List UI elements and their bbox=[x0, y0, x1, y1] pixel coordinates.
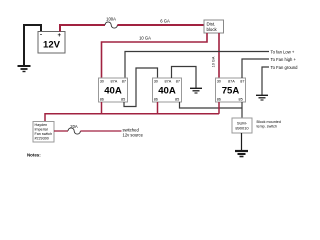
svg-text:87: 87 bbox=[176, 80, 180, 84]
svg-text:Notes:: Notes: bbox=[27, 153, 41, 158]
wire relay R1 pin 86 down to switched bus bbox=[101, 102, 103, 114]
svg-text:85: 85 bbox=[239, 98, 243, 102]
svg-text:87: 87 bbox=[122, 80, 126, 84]
svg-text:12V: 12V bbox=[43, 40, 61, 51]
svg-text:30: 30 bbox=[154, 80, 158, 84]
svg-text:Fan switch: Fan switch bbox=[35, 132, 53, 136]
svg-text:temp. switch: temp. switch bbox=[257, 124, 278, 128]
svg-text:To Fan high +: To Fan high + bbox=[271, 57, 297, 62]
svg-text:Block mounted: Block mounted bbox=[257, 120, 281, 124]
relay R1 40A bbox=[99, 78, 128, 102]
svg-text:Dist.: Dist. bbox=[207, 22, 216, 27]
temp switch SUM-890010 bbox=[232, 118, 252, 133]
wire relay R2 pin 85 to temp switch node bbox=[180, 102, 243, 108]
svg-text:To fan Low +: To fan Low + bbox=[271, 49, 295, 54]
wire temp switch to ground G4 bbox=[241, 133, 243, 151]
svg-text:Imperial: Imperial bbox=[35, 128, 48, 132]
wire relay R1 pin 85 to relay R2 pin 30 bbox=[124, 68, 158, 107]
svg-text:To Fan ground: To Fan ground bbox=[271, 65, 299, 70]
svg-text:10 GA: 10 GA bbox=[139, 36, 151, 41]
svg-text:Hayden: Hayden bbox=[35, 123, 48, 127]
wire relay R3 pin 85 down to temp switch bbox=[241, 102, 243, 118]
wire 10 GA from dist block down to relay R3 pin 30 bbox=[218, 33, 220, 78]
svg-text:100A: 100A bbox=[106, 17, 116, 22]
svg-text:40A: 40A bbox=[158, 86, 176, 97]
wire battery negative to ground bbox=[24, 25, 41, 66]
circuit breaker CB2 20A bbox=[68, 128, 80, 134]
svg-text:86: 86 bbox=[217, 98, 221, 102]
ground G1 (battery negative) bbox=[18, 66, 31, 72]
wire relay R1 pin 87 to fan low output bbox=[125, 52, 269, 79]
relay R3 75A bbox=[216, 78, 246, 102]
wire breaker CB2 to switched 12v source bbox=[80, 130, 121, 132]
svg-text:87A: 87A bbox=[111, 80, 118, 84]
wire switched 12v bus bbox=[45, 114, 219, 122]
svg-text:87A: 87A bbox=[228, 80, 235, 84]
svg-text:890010: 890010 bbox=[235, 126, 249, 131]
svg-text:86: 86 bbox=[154, 98, 158, 102]
relay R2 40A bbox=[153, 78, 182, 102]
battery 12V bbox=[38, 32, 65, 54]
wire relay R2 pin 87A to ground G2 bbox=[172, 67, 197, 89]
svg-text:-: - bbox=[40, 33, 42, 39]
svg-text:6 GA: 6 GA bbox=[160, 19, 170, 24]
fan switch module (Hayden) bbox=[33, 122, 54, 143]
svg-text:85: 85 bbox=[175, 98, 179, 102]
circuit breaker CB1 100A bbox=[105, 22, 117, 28]
dist. block bbox=[204, 20, 224, 33]
svg-text:40A: 40A bbox=[104, 86, 122, 97]
wire fan ground output to ground G3 bbox=[262, 67, 269, 95]
wire 6 GA red to dist block bbox=[117, 24, 204, 26]
svg-text:12v source: 12v source bbox=[123, 133, 144, 138]
svg-text:+: + bbox=[58, 33, 62, 39]
svg-text:86: 86 bbox=[100, 98, 104, 102]
svg-text:87A: 87A bbox=[165, 80, 172, 84]
wire 10 GA bus from dist block to relay R1 pin 30 bbox=[102, 33, 208, 78]
ground G4 bbox=[235, 151, 248, 157]
svg-text:85: 85 bbox=[121, 98, 125, 102]
wire relay R2 pin 86 down to switched bus bbox=[157, 102, 159, 114]
ground G3 bbox=[256, 95, 268, 100]
svg-text:87: 87 bbox=[240, 80, 244, 84]
svg-text:block: block bbox=[207, 27, 218, 32]
svg-text:20A: 20A bbox=[70, 124, 78, 129]
svg-text:#229300: #229300 bbox=[35, 137, 49, 141]
svg-text:30: 30 bbox=[100, 80, 104, 84]
svg-text:75A: 75A bbox=[222, 86, 240, 97]
wire relay R3 pin 86 down to switched bus bbox=[218, 102, 220, 114]
svg-text:10 GA: 10 GA bbox=[212, 56, 216, 67]
svg-text:30: 30 bbox=[217, 80, 221, 84]
wire battery positive (red) bbox=[60, 25, 105, 32]
ground G2 bbox=[190, 88, 202, 93]
wire relay R3 pin 87 to fan high output bbox=[242, 59, 269, 78]
wire fan switch to breaker CB2 bbox=[54, 130, 68, 132]
